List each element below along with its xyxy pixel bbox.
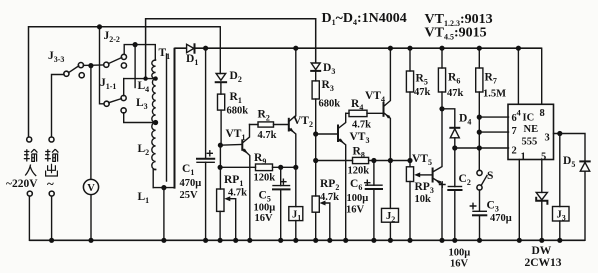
- resistor R9: [256, 164, 273, 171]
- svg-text:7: 7: [512, 126, 517, 137]
- input terminal circles: [27, 137, 32, 142]
- switch J2-2: [104, 54, 127, 68]
- resistor R7: [476, 46, 483, 171]
- svg-text:~220V: ~220V: [6, 178, 38, 190]
- svg-text:V: V: [87, 183, 95, 194]
- wire VT3 base: [316, 133, 338, 135]
- transistor VT3: [338, 113, 348, 243]
- wire pin4 to rail: [517, 48, 519, 104]
- wire pin7: [479, 131, 508, 133]
- switch S: [477, 170, 487, 190]
- transformer T1 secondary: [174, 49, 176, 188]
- svg-text:S: S: [487, 170, 493, 182]
- wire mid rail left: [220, 166, 295, 168]
- potentiometer RP2: [312, 196, 332, 243]
- node pin6 junction: [477, 115, 482, 120]
- resistor R2: [250, 122, 289, 127]
- node mid rail left end: [218, 165, 223, 170]
- wire pin1 to ground: [518, 160, 520, 241]
- transformer T1 core: [166, 54, 168, 181]
- capacitor C6: [365, 161, 382, 243]
- wire main +V rail: [175, 47, 542, 49]
- node pin2 crossing: [477, 145, 482, 150]
- transistor VT5: [433, 109, 445, 243]
- node mid rail right start: [313, 158, 318, 163]
- node L4 tap dots: [143, 76, 147, 80]
- svg-text:16V: 16V: [450, 259, 469, 270]
- wire mid rail right: [316, 160, 411, 162]
- resistor R6: [438, 46, 445, 112]
- wire pin6: [479, 116, 508, 118]
- node V meter junction: [88, 63, 93, 68]
- svg-text:47k: 47k: [447, 88, 464, 99]
- node C5 top: [278, 165, 283, 170]
- switch J1-1: [104, 95, 126, 113]
- svg-text:1.5M: 1.5M: [483, 89, 506, 100]
- label output 输出: [45, 149, 59, 176]
- relay coil J2: [382, 161, 399, 243]
- svg-text:100μ: 100μ: [254, 203, 276, 214]
- svg-text:4.7k: 4.7k: [352, 120, 371, 131]
- wire J3-3 top contact to J2-2 common: [83, 64, 104, 66]
- IC NE555: [508, 104, 554, 162]
- diode D3: [311, 63, 320, 81]
- node pin3 junction: [557, 131, 562, 136]
- svg-text:16V: 16V: [255, 213, 274, 224]
- node VT3 base junction: [313, 131, 318, 136]
- node C6 top: [371, 158, 376, 163]
- wire pin5 to DW: [541, 160, 543, 193]
- wire pin3 output: [554, 134, 586, 161]
- wire output terminal to ground rail: [51, 196, 53, 240]
- svg-text:47k: 47k: [414, 87, 431, 98]
- node J2-2 top junction: [133, 42, 138, 47]
- node pin7 junction: [477, 130, 482, 135]
- wire top border AC line: [29, 27, 221, 137]
- wire L4 tap line: [124, 78, 156, 80]
- capacitor C5: [273, 167, 290, 243]
- node RP3 top junction: [407, 158, 412, 163]
- wire trigger line to pin2: [455, 147, 509, 149]
- node C1 top junction: [203, 46, 208, 51]
- resistor R8: [353, 157, 369, 163]
- label input 输入: [24, 149, 38, 176]
- capacitor C2: [440, 148, 462, 243]
- transistor VT2: [289, 46, 299, 170]
- svg-text:470μ: 470μ: [490, 213, 512, 224]
- wire transformer bottom node: [153, 187, 174, 189]
- capacitor C3: [470, 190, 486, 243]
- capacitor C1: [197, 48, 214, 243]
- svg-text:3: 3: [545, 133, 550, 144]
- svg-text:16V: 16V: [346, 205, 365, 216]
- svg-text:4.7k: 4.7k: [320, 192, 339, 203]
- svg-text:DW: DW: [532, 245, 552, 257]
- wire transformer bottom to ground: [163, 188, 165, 241]
- resistor R4: [346, 110, 383, 116]
- meter V: [83, 66, 98, 243]
- transformer T1 primary winding: [152, 60, 156, 188]
- wire input terminal to ground rail: [28, 196, 30, 240]
- svg-text:2CW13: 2CW13: [525, 257, 562, 269]
- svg-text:2: 2: [512, 146, 517, 157]
- resistor R3: [312, 81, 319, 134]
- zener diode DW: [536, 192, 547, 243]
- svg-text:10k: 10k: [415, 194, 432, 205]
- resistor R5: [406, 46, 413, 167]
- wire bottom ground rail: [29, 239, 585, 241]
- diode D4: [450, 128, 459, 148]
- svg-text:4.7k: 4.7k: [258, 130, 277, 141]
- node pin2 D4 junction: [452, 145, 457, 150]
- svg-text:680k: 680k: [227, 106, 249, 117]
- relay coil J3: [553, 134, 570, 243]
- diode D1: [175, 44, 195, 53]
- output terminal circles: [49, 137, 54, 142]
- wire AC drop to D2: [219, 27, 221, 74]
- diode D5: [580, 161, 589, 240]
- svg-text:25V: 25V: [180, 190, 199, 201]
- svg-text:1: 1: [521, 152, 526, 163]
- svg-text:VT4.5:9015: VT4.5:9015: [425, 26, 487, 42]
- svg-text:120k: 120k: [254, 173, 276, 184]
- wire border drop to J1-1 common: [100, 27, 105, 104]
- svg-text:470μ: 470μ: [180, 178, 202, 189]
- svg-text:555: 555: [522, 137, 538, 148]
- wire J2-2 line to winding top: [124, 45, 155, 60]
- wire R3 to RP2: [315, 134, 317, 196]
- wire J3-3 common to output terminal: [52, 75, 65, 138]
- node L2 tap: [153, 120, 158, 125]
- switch J3-3: [64, 63, 84, 78]
- relay coil J1: [289, 167, 303, 243]
- transistor VT4: [384, 46, 394, 163]
- potentiometer RP1: [217, 189, 239, 243]
- svg-text:680k: 680k: [319, 99, 341, 110]
- wire J1-1 top contact to L4 tap line: [123, 79, 125, 96]
- svg-text:120k: 120k: [348, 166, 370, 177]
- potentiometer RP3: [406, 167, 432, 243]
- wire VT1 base: [220, 144, 241, 147]
- wire J2-2 junction drop to L4 tap: [134, 45, 136, 88]
- transistor VT1: [242, 125, 252, 243]
- svg-text:100μ: 100μ: [347, 193, 369, 204]
- wire pin8 to rail: [541, 48, 543, 104]
- svg-text:~: ~: [47, 176, 54, 191]
- node VT1 base junction: [218, 143, 223, 148]
- diode D2: [216, 74, 226, 95]
- svg-text:100μ: 100μ: [449, 248, 471, 259]
- resistor R1: [218, 94, 225, 145]
- svg-text:4.7k: 4.7k: [228, 188, 247, 199]
- wire J1-1 bottom contact to L2 tap: [124, 113, 156, 123]
- svg-text:NE: NE: [524, 124, 539, 135]
- wire R6 to D4: [442, 109, 455, 127]
- wire topmost line to D3: [146, 19, 316, 79]
- wire R1 to RP1: [219, 145, 221, 189]
- svg-text:8: 8: [540, 108, 545, 119]
- svg-text:IC: IC: [523, 113, 535, 124]
